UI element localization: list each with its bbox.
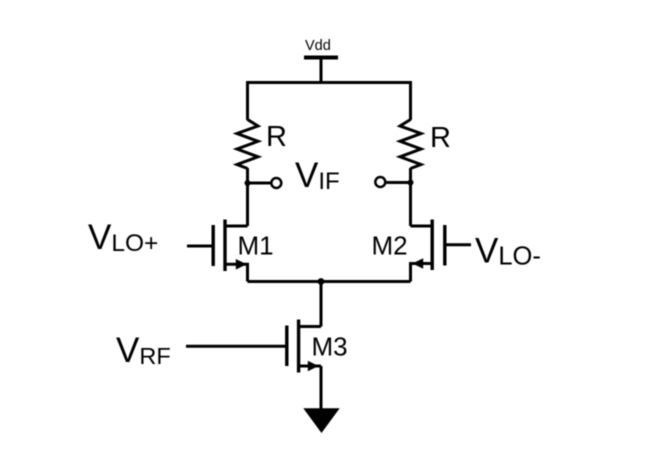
wire right branch to M2 drain	[409, 168, 412, 226]
svg-text:R: R	[430, 122, 451, 154]
wire M3 drain vertical	[320, 282, 323, 327]
transistor M3 source leg	[300, 365, 322, 368]
node left output dot	[245, 180, 251, 186]
terminal circle V_IF right	[375, 177, 385, 187]
wire Vdd stem	[320, 58, 323, 85]
svg-text:VIF: VIF	[295, 156, 340, 195]
wire right output stub	[387, 181, 411, 184]
transistor M2 source leg	[411, 264, 432, 282]
transistor M2 source arrow	[412, 258, 423, 269]
wire right branch upper	[409, 81, 412, 120]
terminal circle V_IF left	[271, 178, 281, 188]
resistor R2	[400, 120, 421, 169]
node right output dot	[408, 180, 414, 186]
wire common source rail	[248, 280, 411, 283]
transistor M1 drain leg	[226, 225, 248, 228]
transistor M1 channel bar	[223, 220, 226, 272]
svg-text:M3: M3	[312, 332, 348, 362]
node tail dot	[318, 278, 325, 285]
transistor M1 source leg	[226, 264, 248, 281]
wire left branch upper	[246, 81, 249, 120]
svg-text:M1: M1	[238, 231, 274, 261]
wire left branch to M1 drain	[246, 168, 249, 226]
transistor M2 gate bar	[443, 225, 446, 266]
svg-text:Vdd: Vdd	[305, 38, 331, 54]
wire top rail	[248, 81, 411, 84]
power symbol Vdd bar	[304, 56, 338, 60]
transistor M2 drain leg	[411, 225, 432, 228]
transistor M2 channel bar	[431, 220, 434, 271]
svg-text:R: R	[266, 121, 287, 153]
svg-text:VRF: VRF	[116, 331, 171, 370]
transistor M3 gate bar	[285, 326, 288, 367]
svg-text:M2: M2	[372, 231, 408, 261]
wire left output stub	[248, 182, 271, 185]
wire M3 source to ground	[320, 366, 323, 409]
transistor M1 source arrow	[236, 259, 247, 270]
transistor M3 source arrow	[308, 361, 319, 372]
resistor R1	[237, 120, 258, 169]
transistor M2 gate wire	[445, 243, 471, 246]
transistor M1 gate bar	[211, 225, 214, 266]
transistor M3 drain leg	[300, 325, 322, 328]
transistor M3 gate wire	[186, 345, 287, 348]
transistor M1 gate wire	[187, 245, 213, 248]
svg-text:VLO+: VLO+	[88, 218, 158, 257]
ground symbol	[303, 408, 339, 433]
transistor M3 channel bar	[297, 320, 300, 373]
svg-text:VLO-: VLO-	[475, 232, 541, 271]
